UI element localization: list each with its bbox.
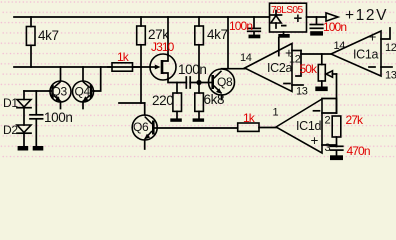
wire J310 source bus	[168, 79, 186, 83]
diode D1	[23, 91, 25, 100]
regulator internal diode symbol	[271, 14, 282, 16]
resistor 27k (left)	[140, 17, 142, 26]
capacitor 100n (rail left of regulator)	[253, 17, 255, 28]
svg-text:12: 12	[385, 42, 396, 54]
wire Q4 base column	[94, 67, 101, 91]
ground (pot)	[315, 87, 327, 92]
diode D2	[17, 125, 31, 133]
svg-text:470n: 470n	[347, 144, 370, 158]
svg-text:13: 13	[296, 86, 308, 98]
wire IC1d pin2	[322, 112, 337, 114]
transistor Q6 (mirrored)	[132, 115, 157, 140]
capacitor 100n (left)	[35, 91, 37, 114]
svg-text:J310: J310	[151, 40, 175, 54]
wire pin12 vertical	[296, 51, 301, 77]
svg-text:50k: 50k	[300, 62, 319, 76]
wire horizontal at y=102	[119, 102, 145, 104]
svg-text:100n: 100n	[229, 19, 252, 33]
svg-text:100n: 100n	[178, 62, 206, 77]
svg-text:100n: 100n	[44, 110, 72, 125]
svg-text:1: 1	[273, 107, 279, 119]
svg-text:+: +	[369, 30, 377, 45]
wire IC1a pin12	[381, 28, 390, 39]
wire rail right of regulator	[307, 16, 327, 18]
svg-text:13: 13	[385, 70, 396, 82]
svg-text:D2: D2	[3, 123, 18, 137]
wire 27k column down to Q6 net	[140, 67, 142, 103]
label minus IC2a	[284, 83, 290, 85]
pot wiper arrow	[326, 71, 333, 77]
transistor Q8	[209, 69, 235, 95]
supply arrow +12V	[326, 13, 338, 21]
resistor 27k (right)	[332, 116, 341, 137]
wire D2 to ground	[23, 133, 25, 146]
svg-text:+: +	[294, 10, 303, 27]
wire IC1a output net	[301, 53, 331, 55]
op-amp IC1a (points left)	[331, 31, 381, 76]
wire IC1d pin3	[322, 144, 337, 146]
wire wiper down	[336, 74, 338, 113]
svg-text:Q8: Q8	[217, 75, 233, 89]
resistor 1k (left, horizontal)	[108, 66, 112, 68]
voltage regulator 78LS05 box	[270, 3, 307, 32]
transistor J310 (JFET)	[150, 54, 176, 80]
svg-text:1k: 1k	[117, 50, 130, 64]
svg-text:Q6: Q6	[133, 120, 149, 134]
svg-text:3: 3	[325, 142, 331, 154]
svg-text:D1: D1	[3, 96, 18, 110]
label minus IC1d	[314, 110, 320, 112]
transistor Q4 (mirrored)	[73, 81, 94, 102]
ground (6k8)	[193, 118, 205, 121]
svg-text:Q3: Q3	[52, 85, 68, 99]
svg-text:+: +	[311, 133, 319, 148]
svg-text:100n: 100n	[323, 20, 346, 34]
wire D1-D2	[23, 108, 25, 125]
resistor 1k (bottom, horizontal)	[238, 123, 259, 131]
potentiometer 50k	[321, 54, 323, 65]
wire IC2a pin13 stub	[292, 84, 303, 86]
ground (cap left)	[33, 146, 44, 151]
svg-text:1k: 1k	[243, 111, 256, 125]
wire mid horizontal net (gate bus)	[14, 66, 150, 68]
wire IC1a pin13 stub	[381, 66, 392, 68]
ground (cap right)	[310, 31, 323, 35]
resistor 4k7 (left)	[30, 17, 32, 27]
svg-text:2: 2	[325, 115, 331, 127]
op-amp IC1d (points left)	[276, 99, 322, 153]
svg-text:+12V: +12V	[345, 7, 388, 24]
wire cap to Q8 base	[190, 82, 208, 84]
ground (diodes)	[18, 146, 29, 151]
wire IC1d corner supply	[322, 99, 337, 114]
capacitor 100n (series)	[185, 77, 187, 88]
svg-text:4k7: 4k7	[38, 28, 59, 43]
resistor 4k7 (middle)	[198, 17, 200, 26]
node junction dot	[196, 80, 201, 85]
capacitor 100n (rail right of regulator)	[316, 17, 318, 24]
wire J310 drain to rail	[167, 17, 169, 55]
ground (regulator)	[283, 32, 285, 34]
label minus (regulator)	[281, 25, 287, 27]
ground (cap at rail)	[249, 35, 261, 39]
transistor Q3	[50, 81, 71, 102]
wire IC2a output to Q8 collector	[222, 68, 245, 70]
svg-text:220: 220	[152, 93, 173, 108]
svg-text:IC1d: IC1d	[296, 119, 322, 133]
op-amp IC2a (points left)	[245, 44, 292, 92]
resistor 220	[176, 83, 178, 94]
wire rail drop to output node	[227, 17, 229, 69]
wire top +5V rail	[14, 16, 270, 18]
wire Q6 base long net	[157, 127, 238, 129]
svg-text:27k: 27k	[346, 113, 365, 127]
svg-text:IC1a: IC1a	[353, 47, 379, 61]
svg-text:4k7: 4k7	[207, 27, 228, 42]
label minus IC1a	[369, 66, 375, 68]
capacitor 470n	[330, 145, 343, 147]
wire IC2a V- to ground	[278, 38, 280, 56]
ground (220)	[170, 118, 182, 121]
svg-text:14: 14	[334, 40, 346, 52]
ground (470n)	[330, 155, 343, 160]
wire base node (Q3 base to diodes)	[24, 90, 50, 92]
svg-text:Q4: Q4	[75, 85, 91, 99]
wire IC2a pin12	[292, 50, 301, 52]
resistor 6k8	[198, 85, 200, 93]
svg-text:14: 14	[240, 52, 252, 64]
